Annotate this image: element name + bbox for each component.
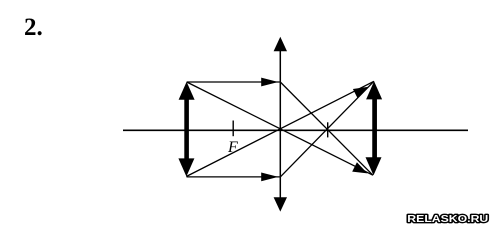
- arrowhead on ray 1 at lens: [261, 78, 278, 87]
- ray 5: central ray from object top tip through lens centre to image bottom tip: [187, 82, 373, 175]
- ray 1: parallel ray from object top tip to lens: [187, 81, 280, 83]
- svg-text:RELASKO.RU: RELASKO.RU: [407, 214, 488, 225]
- label 2.: [24, 14, 43, 42]
- ray 3: refracted ray through F' to image bottom tip: [280, 82, 373, 175]
- image arrow (thick double-headed): [366, 81, 383, 175]
- arrowhead on ray 2 at lens: [261, 173, 278, 182]
- focal point tick F (left): [232, 121, 234, 137]
- object arrow (thick double-headed): [178, 82, 194, 177]
- focal point tick F' (right): [327, 122, 329, 137]
- optical axis: [123, 129, 468, 131]
- arrowhead on ray 6 near image: [353, 87, 369, 98]
- ray 4: refracted ray through F' to image top tip: [280, 81, 374, 177]
- arrowhead on ray 5 near image: [352, 162, 367, 173]
- ray 2: parallel ray from object bottom tip to lens: [187, 176, 280, 178]
- lens L (thin double-headed vertical arrow): [274, 37, 287, 212]
- watermark RELASKO.RU: [407, 214, 488, 225]
- ray 6: central ray from object bottom tip through lens centre to image top tip: [186, 81, 374, 176]
